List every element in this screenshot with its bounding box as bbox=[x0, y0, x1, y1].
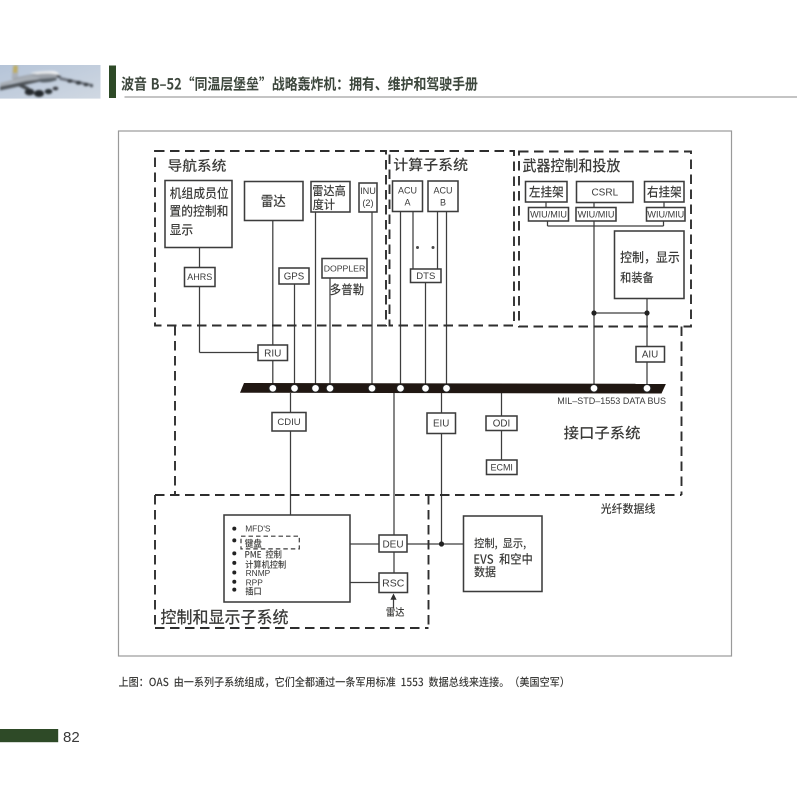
svg-text:WIU/MIU: WIU/MIU bbox=[578, 210, 615, 220]
svg-text:B: B bbox=[440, 198, 446, 208]
svg-text:MIL–STD–1553 DATA BUS: MIL–STD–1553 DATA BUS bbox=[557, 396, 666, 406]
svg-text:DTS: DTS bbox=[416, 271, 435, 282]
svg-text:AIU: AIU bbox=[642, 350, 658, 361]
svg-text:ECMI: ECMI bbox=[490, 462, 513, 472]
svg-text:ACU: ACU bbox=[433, 185, 452, 195]
svg-text:82: 82 bbox=[63, 729, 80, 746]
svg-text:RPP: RPP bbox=[246, 577, 264, 587]
svg-text:CDIU: CDIU bbox=[277, 417, 300, 428]
svg-text:EIU: EIU bbox=[433, 419, 449, 430]
svg-text:MFD'S: MFD'S bbox=[245, 523, 271, 533]
svg-text:RIU: RIU bbox=[264, 348, 281, 359]
svg-text:AHRS: AHRS bbox=[187, 272, 212, 282]
svg-text:INU: INU bbox=[360, 186, 376, 196]
svg-text:RSC: RSC bbox=[382, 578, 405, 590]
svg-text:GPS: GPS bbox=[284, 272, 305, 283]
svg-text:DEU: DEU bbox=[382, 539, 403, 550]
svg-text:ODI: ODI bbox=[493, 419, 510, 430]
svg-text:WIU/MIU: WIU/MIU bbox=[647, 210, 684, 220]
svg-text:A: A bbox=[404, 198, 410, 208]
svg-text:DOPPLER: DOPPLER bbox=[324, 263, 366, 273]
svg-text:CSRL: CSRL bbox=[591, 188, 618, 199]
svg-text:ACU: ACU bbox=[398, 185, 417, 195]
svg-text:(2): (2) bbox=[362, 198, 373, 208]
svg-text:WIU/MIU: WIU/MIU bbox=[530, 210, 567, 220]
